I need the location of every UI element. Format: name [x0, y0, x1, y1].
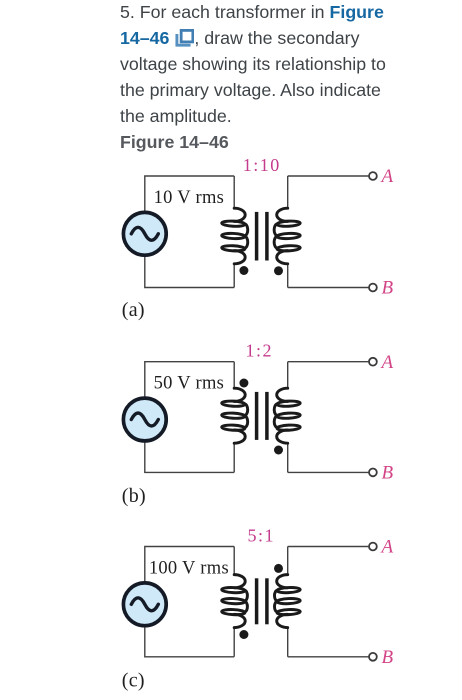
svg-text:1:2: 1:2	[246, 341, 274, 361]
svg-text:A: A	[380, 537, 394, 558]
svg-text:5:1: 5:1	[248, 526, 276, 546]
svg-text:B: B	[382, 278, 394, 299]
svg-text:10 V rms: 10 V rms	[154, 188, 225, 208]
svg-text:(c): (c)	[122, 669, 145, 691]
svg-text:(b): (b)	[122, 485, 146, 507]
svg-text:A: A	[380, 352, 394, 373]
svg-text:1:10: 1:10	[243, 155, 281, 175]
svg-text:50 V rms: 50 V rms	[154, 374, 225, 394]
svg-text:B: B	[382, 647, 394, 668]
svg-text:100 V rms: 100 V rms	[149, 558, 229, 578]
svg-text:(a): (a)	[122, 299, 145, 321]
svg-text:A: A	[380, 166, 394, 187]
svg-text:B: B	[382, 463, 394, 484]
